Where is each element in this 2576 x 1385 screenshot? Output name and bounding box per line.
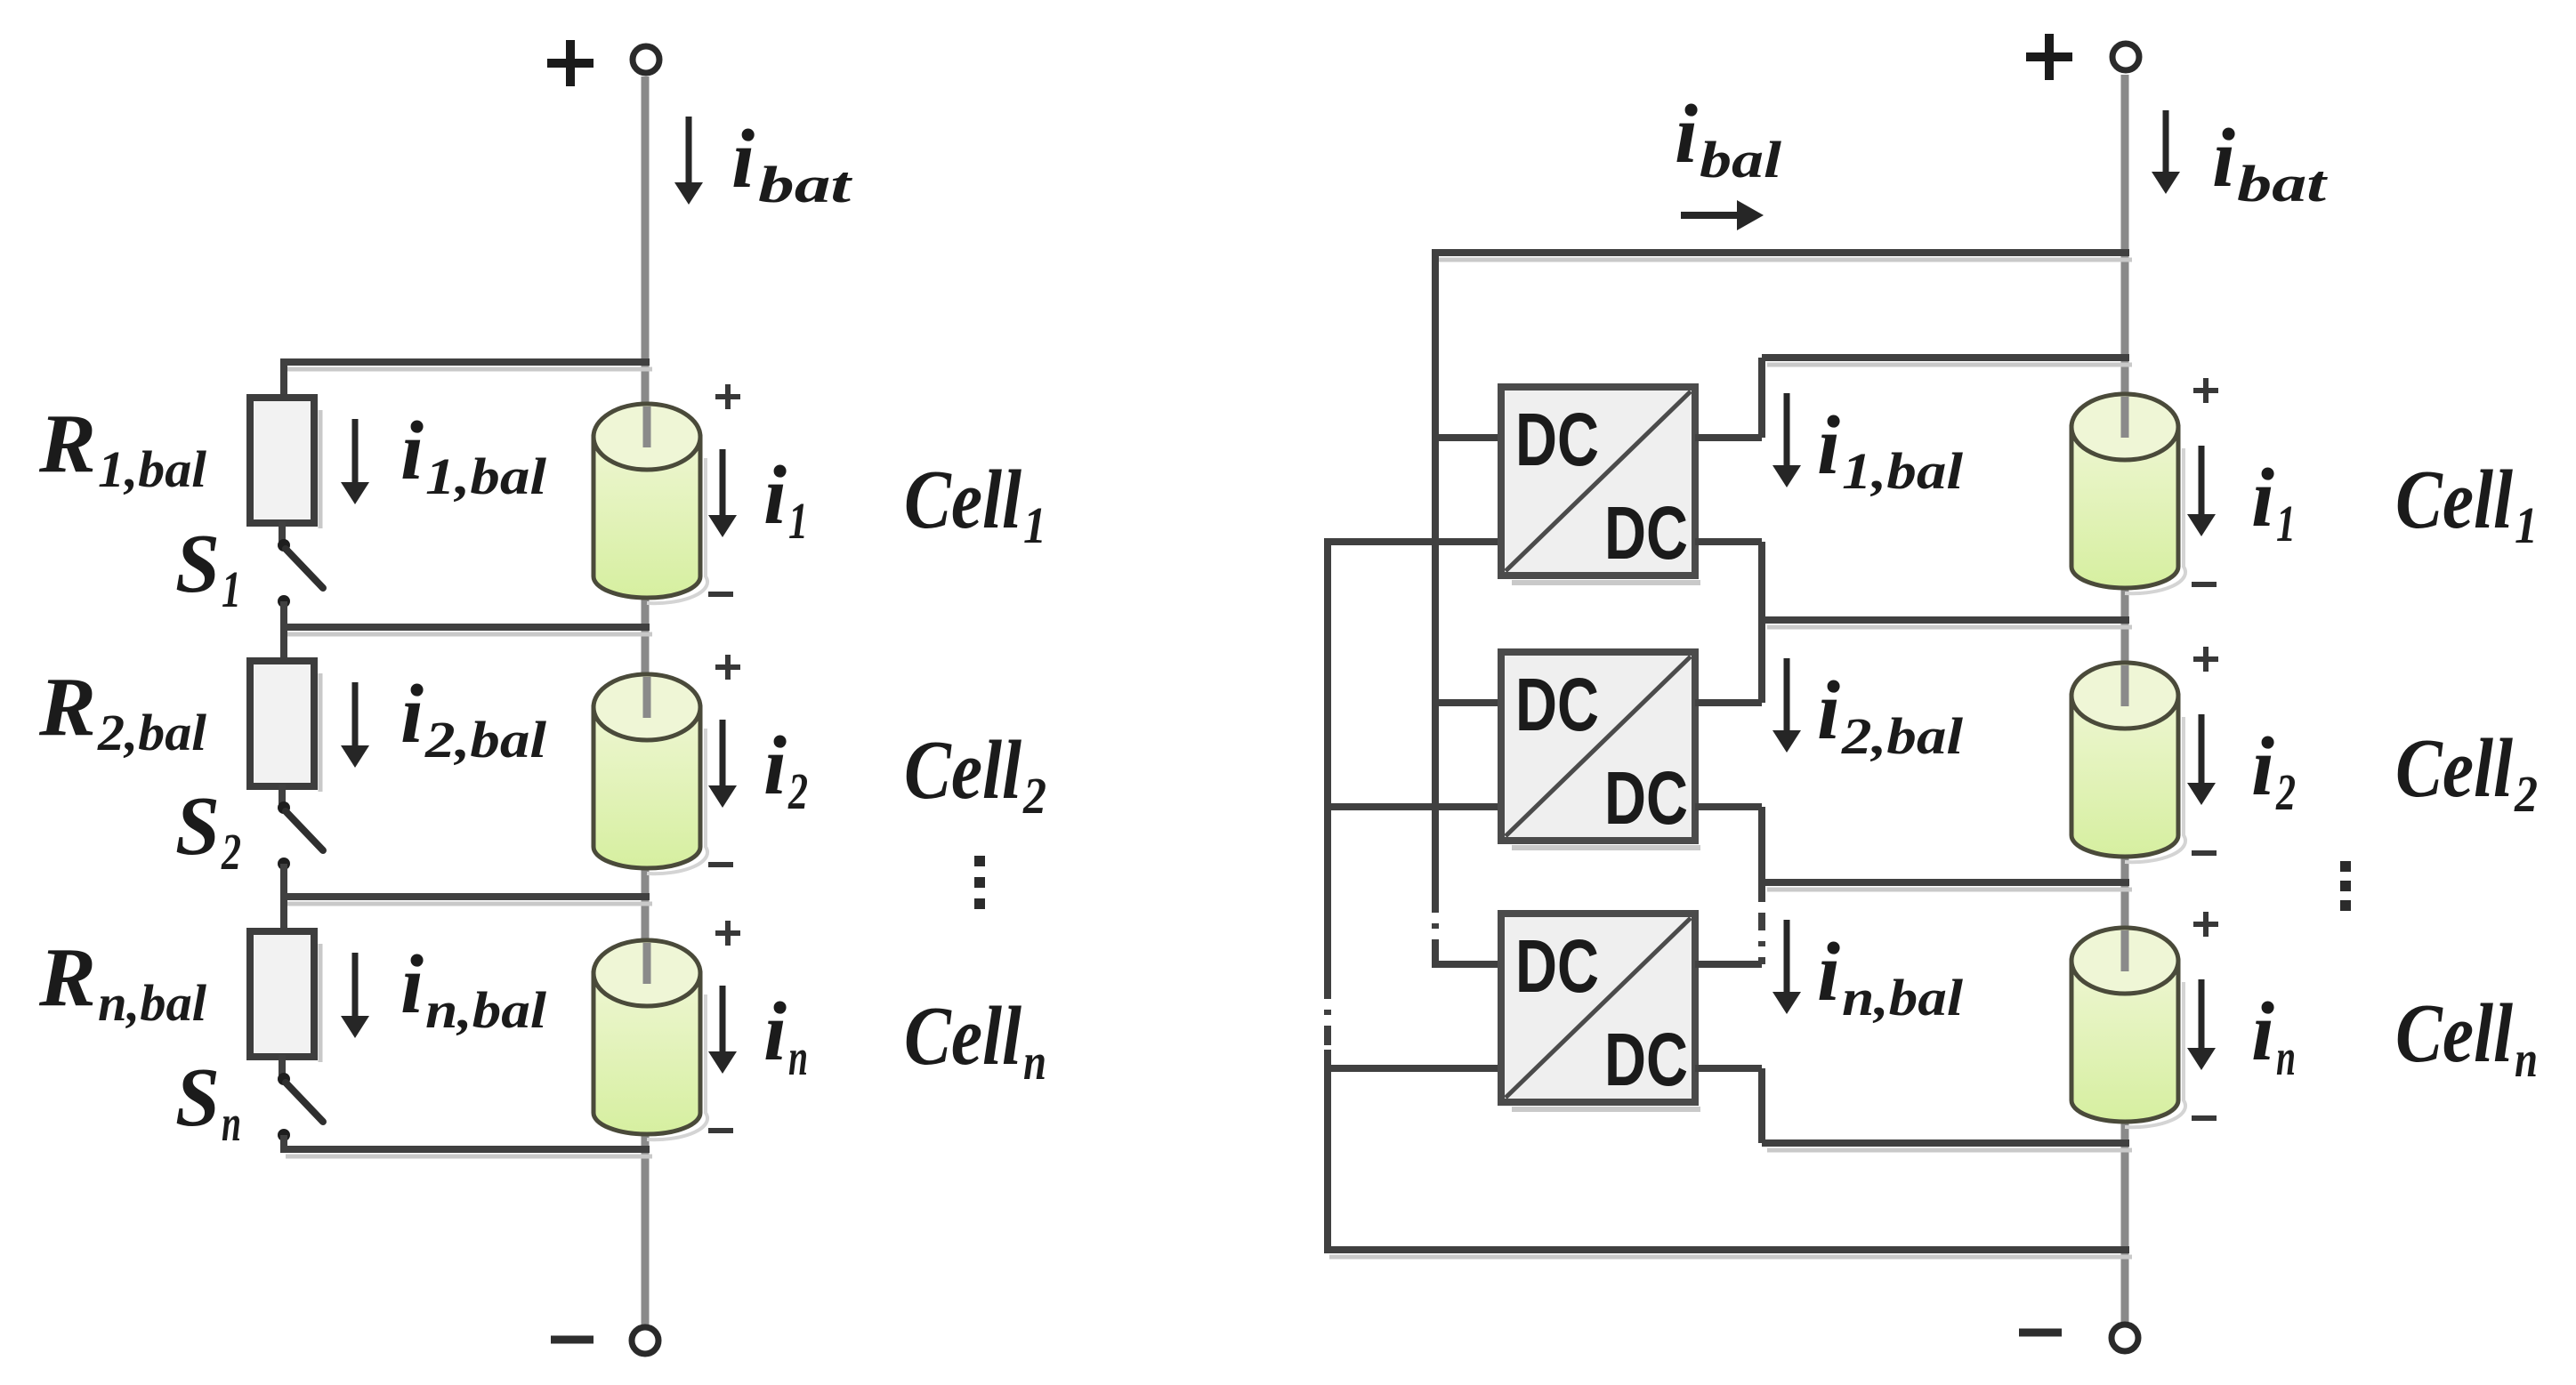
svg-text:1: 1	[1023, 496, 1046, 554]
svg-text:Cell: Cell	[904, 724, 1022, 817]
wire lower input wire DC/DC n	[1328, 1065, 1501, 1072]
DC/DC converter n	[1501, 914, 1700, 1109]
minus sign (right bottom)	[2019, 1329, 2062, 1337]
wire upper output stub DC/DC n	[1695, 961, 1762, 968]
svg-text:DC: DC	[1515, 398, 1599, 481]
svg-text:DC: DC	[1604, 756, 1688, 840]
svg-text:2: 2	[787, 762, 808, 820]
switch S2	[278, 801, 323, 870]
wire junction wire row 1 (left, y=407)	[280, 362, 652, 369]
minus mark cell 1 (right)	[2192, 582, 2217, 587]
cell Cell_n (left)	[594, 940, 707, 1139]
svg-text:DC: DC	[1604, 1018, 1688, 1101]
cell Cell_1 (left)	[594, 404, 707, 603]
wire cell1/cell2 node wire (right, y=697)	[1762, 620, 2132, 627]
vertical ellipsis between Cell_2 and Cell_n (right)	[2340, 861, 2351, 911]
svg-text:1: 1	[788, 492, 808, 550]
svg-text:2: 2	[221, 823, 241, 881]
wire stub switch S2 to lower junction	[280, 864, 287, 897]
wire right battery string (main vertical)	[2121, 75, 2129, 1322]
wire left battery string (main vertical)	[642, 76, 650, 1325]
svg-text:bat: bat	[2237, 155, 2329, 213]
svg-text:2: 2	[2514, 765, 2538, 823]
wire bottom bus (right, y=1405)	[1324, 1250, 2132, 1257]
svg-text:i: i	[2212, 112, 2235, 205]
wire connector DC/DC2 lower to node	[1758, 807, 1765, 902]
wire lower output stub DC/DC n	[1695, 1065, 1762, 1072]
svg-text:R: R	[38, 661, 96, 753]
arrow i_2,bal	[341, 682, 369, 768]
plus mark cell n (right)	[2193, 912, 2218, 937]
wire bus A upper segment	[1432, 253, 1439, 893]
wire upper input wire DC/DC 1	[1435, 434, 1501, 441]
wire bottom junction wire (left, y=1292)	[280, 1149, 652, 1156]
wire stub resistor R2,bal to switch S2	[279, 785, 286, 804]
minus mark cell n (right)	[2192, 1115, 2217, 1121]
DC/DC converter 1	[1501, 387, 1700, 583]
wire lower input wire DC/DC 2	[1328, 803, 1501, 810]
wire connector DC/DC1 upper output to node	[1758, 358, 1765, 438]
minus mark cell n (left)	[708, 1128, 733, 1133]
svg-text:n,bal: n,bal	[98, 974, 207, 1032]
svg-text:i: i	[1817, 926, 1840, 1019]
arrow i_n (right)	[2187, 979, 2216, 1070]
arrow i_2,bal (right)	[1773, 658, 1801, 753]
terminal - (left bottom)	[632, 1327, 658, 1354]
wire stub to resistor R1,bal	[280, 362, 287, 403]
svg-text:bal: bal	[1700, 131, 1782, 189]
svg-text:S: S	[175, 518, 220, 610]
svg-text:1: 1	[222, 560, 241, 618]
svg-text:bat: bat	[758, 156, 853, 213]
wire stub resistor R1,bal to switch S1	[279, 521, 286, 542]
plus sign (left top)	[547, 40, 594, 86]
svg-text:1,bal: 1,bal	[425, 447, 547, 505]
wire stub to resistor Rn,bal	[280, 897, 287, 937]
cell Cell_2 (left)	[594, 674, 707, 874]
resistor R1,bal	[250, 398, 320, 528]
svg-text:i: i	[400, 938, 424, 1031]
wire upper output stub DC/DC 2	[1695, 699, 1762, 706]
svg-text:i: i	[731, 113, 755, 205]
svg-text:i: i	[400, 668, 424, 761]
wire connector dash-dot to DC/DC n upper	[1758, 913, 1765, 964]
svg-text:i: i	[1817, 399, 1840, 492]
cell Cell_1 (right)	[2071, 394, 2185, 593]
svg-text:n,bal: n,bal	[1842, 969, 1964, 1027]
svg-text:2: 2	[1022, 767, 1046, 825]
svg-text:Cell: Cell	[904, 454, 1022, 546]
arrow i_1,bal (right)	[1773, 393, 1801, 487]
svg-text:n: n	[222, 1094, 241, 1152]
arrow i_2 (left)	[708, 720, 737, 808]
plus sign (right top)	[2026, 34, 2072, 80]
resistor R2,bal	[250, 661, 320, 792]
svg-text:i: i	[763, 449, 787, 542]
arrow i_n,bal	[341, 953, 369, 1038]
switch Sn	[278, 1073, 323, 1141]
svg-text:1: 1	[2515, 496, 2538, 554]
svg-text:2: 2	[2275, 763, 2296, 821]
svg-text:2,bal: 2,bal	[1841, 707, 1964, 765]
plus mark cell 1 (right)	[2193, 378, 2218, 403]
minus mark cell 1 (left)	[708, 592, 733, 597]
arrow i_2 (right)	[2187, 714, 2216, 805]
plus mark cell 2 (left)	[715, 655, 740, 680]
svg-text:n: n	[1023, 1033, 1046, 1091]
minus mark cell 2 (right)	[2192, 850, 2217, 856]
bus B from DC/DC 1 lower input	[1328, 542, 1501, 979]
arrow i_bat (left)	[674, 117, 703, 205]
svg-text:1,bal: 1,bal	[1842, 442, 1964, 500]
wire cell2/celln node wire (right, y=992)	[1762, 882, 2132, 890]
svg-text:Cell: Cell	[2395, 987, 2513, 1080]
wire cell1 top node wire (right, y=402)	[1762, 358, 2132, 365]
wire bus B dash-dot segment	[1324, 979, 1331, 1050]
wire junction wire row n (left, y=1008)	[280, 897, 652, 904]
switch S1	[278, 539, 323, 608]
svg-text:Cell: Cell	[904, 990, 1022, 1083]
wire upper input wire DC/DC 2	[1435, 699, 1501, 706]
svg-text:DC: DC	[1604, 491, 1688, 575]
svg-text:i: i	[763, 986, 787, 1078]
wire connector DC/DC1 lower / DC/DC2 upper	[1758, 542, 1765, 703]
svg-text:Cell: Cell	[2395, 722, 2513, 815]
svg-text:i: i	[763, 720, 787, 812]
wire top bus (right, y=284)	[1432, 253, 2132, 260]
svg-text:S: S	[175, 1051, 220, 1144]
wire lower output stub DC/DC 2	[1695, 803, 1762, 810]
svg-text:DC: DC	[1515, 924, 1599, 1008]
svg-text:i: i	[1675, 88, 1698, 181]
svg-text:n,bal: n,bal	[425, 981, 547, 1039]
resistor Rn,bal	[250, 931, 320, 1062]
arrow i_n,bal (right)	[1773, 920, 1801, 1014]
svg-text:i: i	[2251, 986, 2274, 1078]
terminal + (right top)	[2112, 44, 2139, 70]
vertical ellipsis between Cell_2 and Cell_n (left)	[974, 856, 985, 909]
wire celln bottom node wire (right, y=1285)	[1762, 1143, 2132, 1150]
arrow i_1 (right)	[2187, 446, 2216, 536]
arrow i_1,bal	[341, 419, 369, 504]
wire bus B lower segment	[1324, 1050, 1331, 1250]
cell Cell_n (right)	[2071, 928, 2185, 1127]
wire upper output stub DC/DC 1	[1695, 434, 1762, 441]
plus mark cell n (left)	[715, 921, 740, 946]
wire connector DC/DC n lower to node	[1758, 1068, 1765, 1143]
arrow i_1 (left)	[708, 449, 737, 537]
svg-text:i: i	[2251, 721, 2274, 813]
plus mark cell 2 (right)	[2193, 647, 2218, 672]
arrow i_n (left)	[708, 986, 737, 1074]
svg-text:n: n	[788, 1028, 808, 1086]
svg-text:2,bal: 2,bal	[97, 704, 207, 761]
wire stub to resistor R2,bal	[280, 627, 287, 666]
cell Cell_2 (right)	[2071, 663, 2185, 862]
terminal + (left top)	[633, 46, 659, 73]
wire stub resistor Rn,bal to switch Sn	[279, 1055, 286, 1075]
terminal - (right bottom)	[2112, 1325, 2138, 1351]
plus mark cell 1 (left)	[715, 384, 740, 409]
bus A corner to DC/DC n upper input	[1435, 957, 1501, 964]
svg-text:R: R	[38, 398, 96, 490]
svg-text:Cell: Cell	[2395, 454, 2513, 546]
arrow i_bal (right, to bus)	[1681, 200, 1764, 230]
DC/DC converter 2	[1501, 652, 1700, 848]
wire stub switch S1 to lower junction	[280, 601, 287, 627]
arrow i_bat (right)	[2152, 110, 2180, 194]
svg-text:1,bal: 1,bal	[98, 440, 207, 498]
wire bus A dash-dot segment	[1432, 893, 1439, 961]
svg-text:i: i	[1817, 664, 1840, 757]
wire lower output stub DC/DC 1	[1695, 538, 1762, 545]
wire stub switch Sn to lower junction	[280, 1135, 287, 1149]
svg-text:n: n	[2276, 1028, 2296, 1086]
svg-text:2,bal: 2,bal	[424, 711, 547, 769]
svg-text:R: R	[38, 931, 96, 1024]
svg-text:i: i	[400, 405, 424, 497]
minus sign (left bottom)	[551, 1336, 594, 1344]
wire lower input wire DC/DC 1	[1328, 538, 1501, 545]
wire junction wire row 2 (left, y=705)	[280, 627, 652, 634]
svg-text:n: n	[2515, 1030, 2538, 1088]
svg-text:i: i	[2251, 452, 2274, 544]
svg-text:1: 1	[2276, 495, 2296, 552]
svg-text:DC: DC	[1515, 663, 1599, 746]
minus mark cell 2 (left)	[708, 862, 733, 867]
svg-text:S: S	[175, 780, 220, 873]
